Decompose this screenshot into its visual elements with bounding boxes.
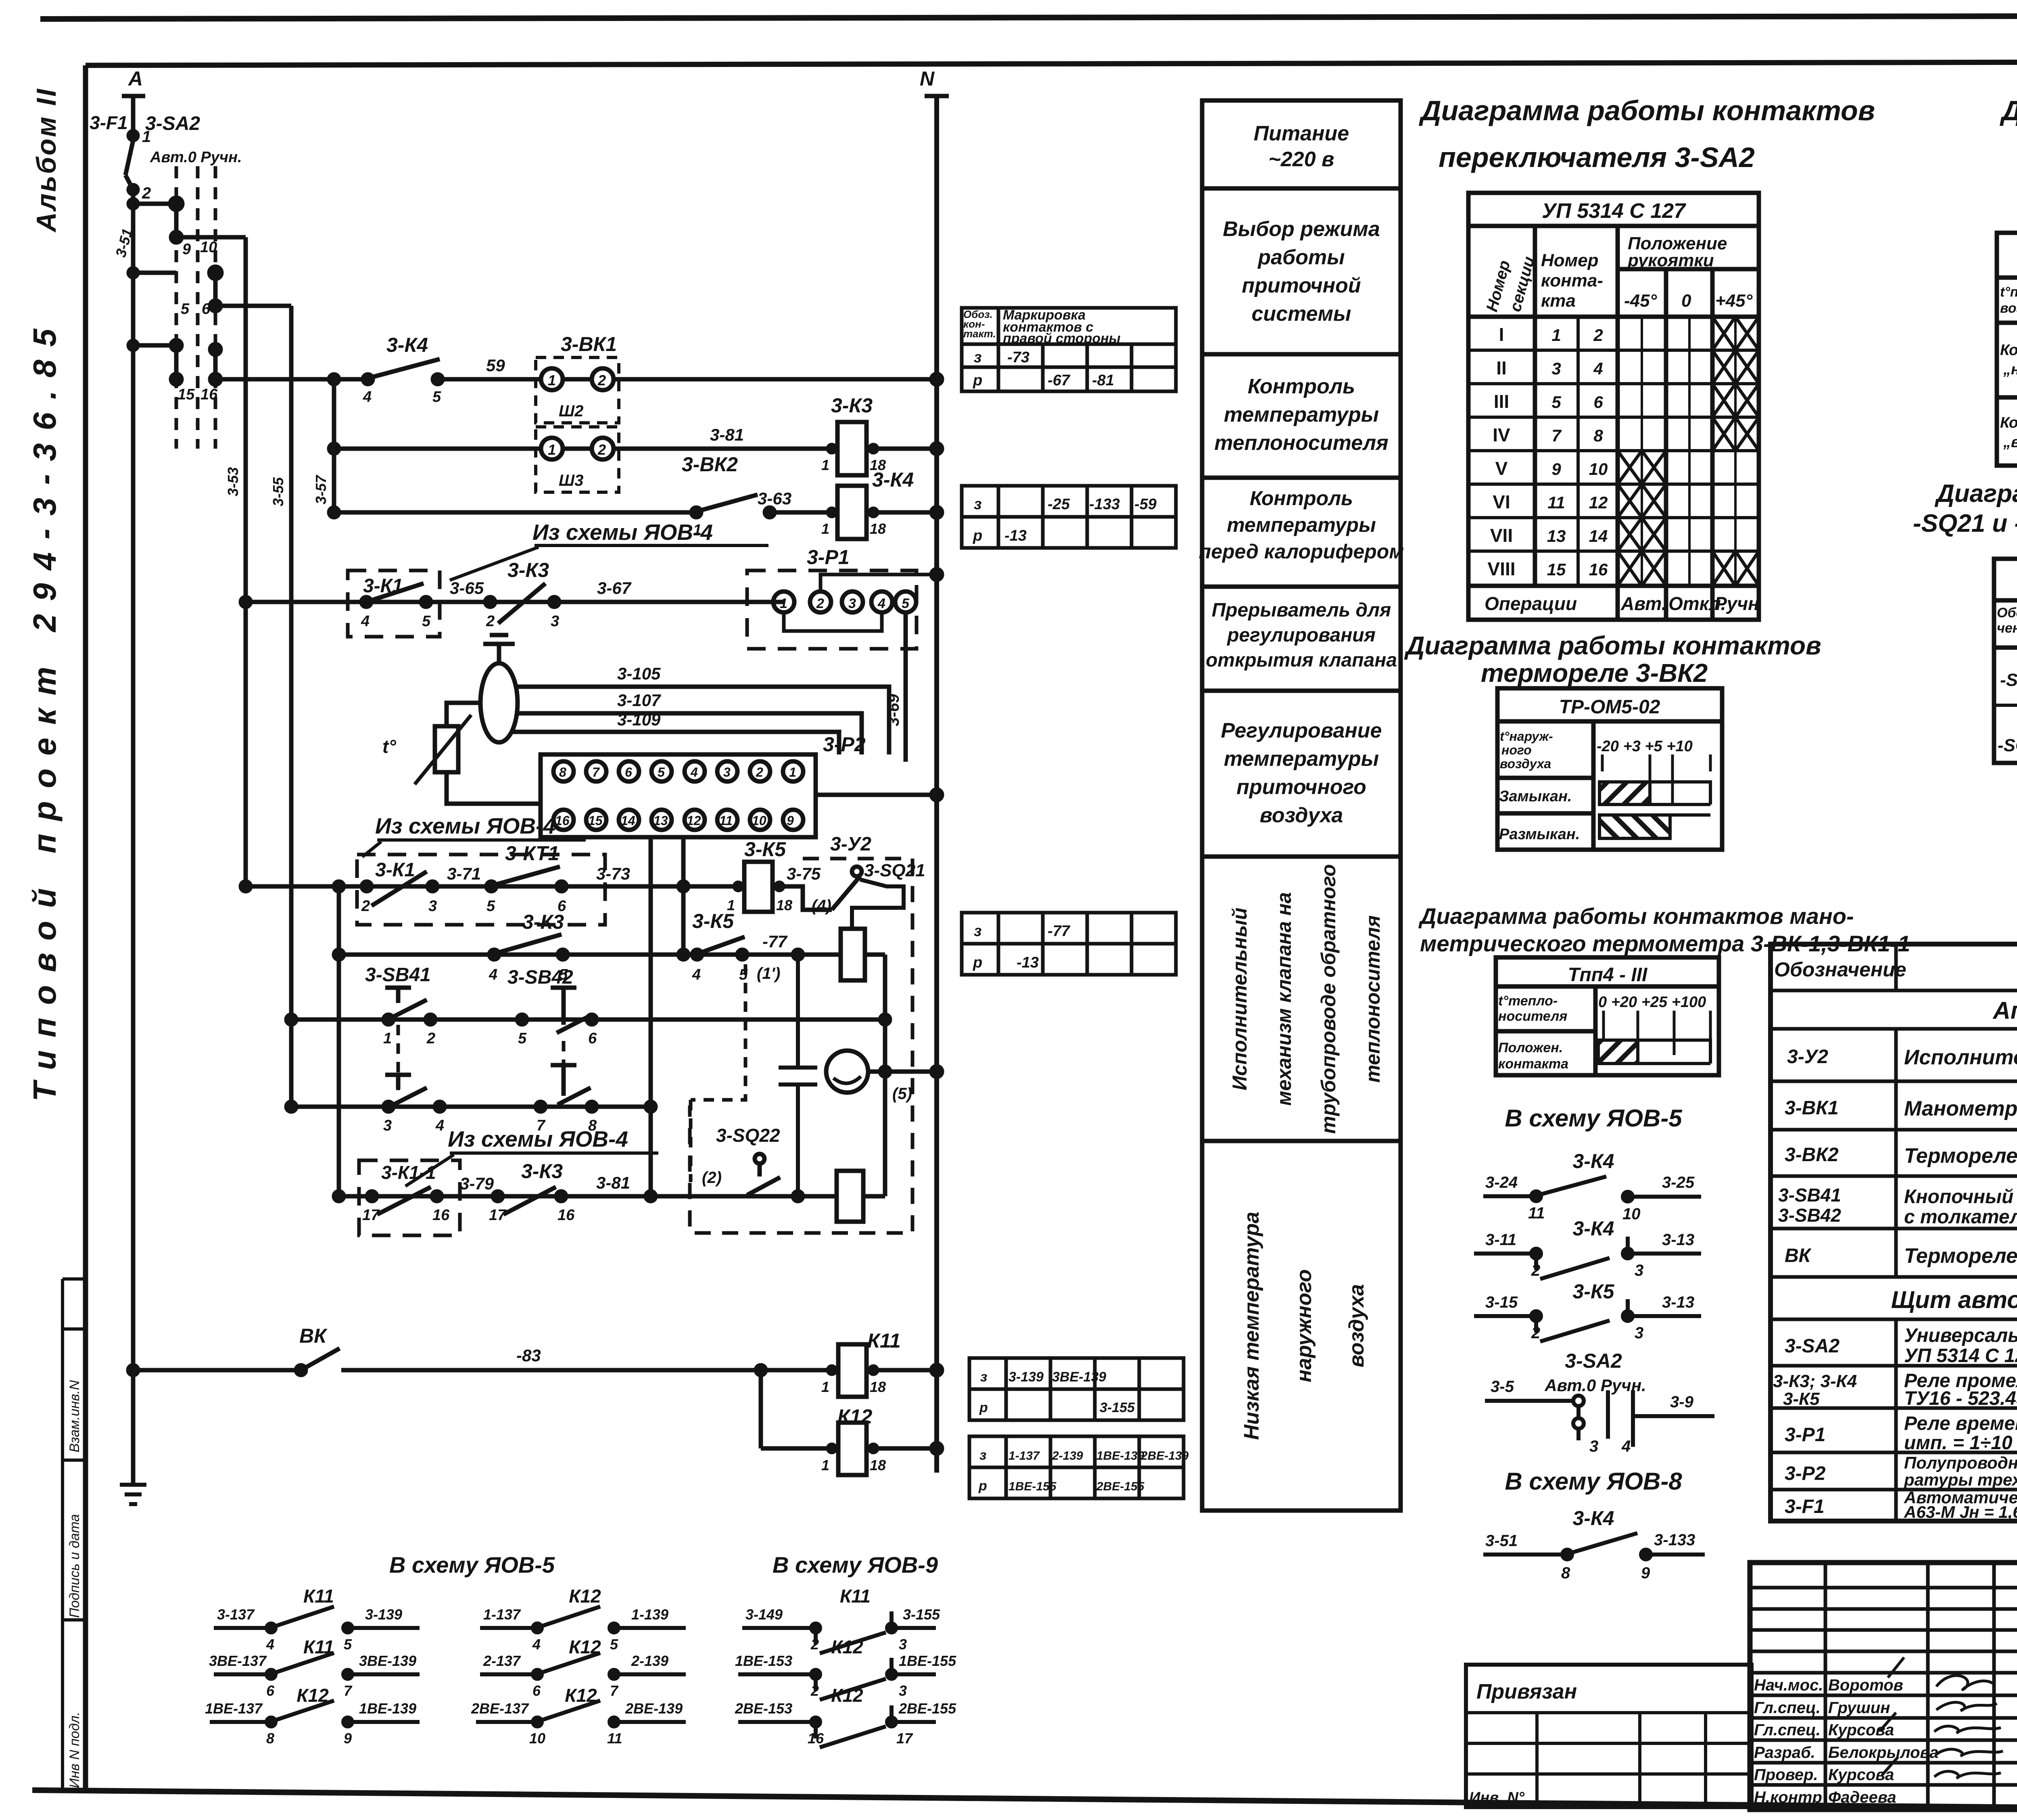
- row 3-U2: [1787, 1035, 2017, 1081]
- contact 3-KT1: [487, 842, 630, 915]
- svg-text:ТР-ОМ5-02: ТР-ОМ5-02: [1559, 696, 1660, 718]
- svg-text:3-139: 3-139: [365, 1606, 402, 1623]
- svg-text:Контакт: Контакт: [2000, 342, 2017, 359]
- 3-P2 terminals top row: [553, 761, 803, 781]
- mech links dashed: [398, 1025, 564, 1090]
- svg-text:ТУ16 - 523.457- 74: ТУ16 - 523.457- 74: [1904, 1388, 2017, 1409]
- svg-text:14: 14: [1589, 527, 1608, 545]
- svg-text:V: V: [1495, 458, 1508, 479]
- svg-text:-77: -77: [762, 932, 787, 951]
- svg-text:(5): (5): [892, 1085, 912, 1103]
- svg-text:Манометрический термометр Тп: Манометрический термометр Тпп4-III: [1904, 1097, 2017, 1120]
- svg-text:3-SВ41: 3-SВ41: [365, 964, 431, 986]
- contact K11 a: [214, 1586, 420, 1653]
- svg-text:5: 5: [344, 1636, 352, 1653]
- rung5 wire: [241, 882, 745, 891]
- svg-text:3-13: 3-13: [1662, 1231, 1694, 1249]
- svg-text:А63-М Jн = 1,6 А ; Jотс: А63-М Jн = 1,6 А ; Jотс = 1,3 Jн: [1904, 1502, 2017, 1521]
- svg-text:Аппаратура по месту: Аппаратура по месту: [1992, 997, 2017, 1024]
- svg-text:3-К3: 3-К3: [521, 1160, 563, 1183]
- svg-text:ВК: ВК: [1785, 1245, 1812, 1266]
- rung9 wire: [334, 1191, 837, 1201]
- svg-text:В схему ЯОВ-5: В схему ЯОВ-5: [389, 1552, 555, 1578]
- svg-text:чение: чение: [1997, 621, 2017, 636]
- svg-text:3-ВК2: 3-ВК2: [682, 453, 738, 476]
- svg-text:Термореле ТР-ОМ5-02: Термореле ТР-ОМ5-02: [1904, 1144, 2017, 1168]
- svg-text:1: 1: [821, 1457, 829, 1473]
- svg-text:2: 2: [1593, 326, 1603, 345]
- svg-text:2: 2: [361, 898, 370, 915]
- thermometer 3-BK1 contacts Ш2: [536, 333, 619, 423]
- svg-text:2ВЕ-155: 2ВЕ-155: [1096, 1480, 1145, 1493]
- svg-text:3-SВ42: 3-SВ42: [1778, 1205, 1841, 1226]
- relay box 3-K1 dashed: [348, 570, 440, 637]
- Tpp4 texts: [1498, 964, 1706, 1072]
- svg-text:переключателя 3-SА2: переключателя 3-SА2: [1439, 142, 1755, 173]
- table Tpp4 frame: [1496, 957, 1719, 1075]
- svg-text:10: 10: [529, 1730, 545, 1747]
- svg-text:3: 3: [723, 765, 731, 779]
- svg-text:регулирования: регулирования: [1226, 625, 1376, 646]
- svg-text:VIII: VIII: [1487, 558, 1515, 579]
- svg-text:Обозна-: Обозна-: [1997, 605, 2017, 621]
- svg-text:3-9: 3-9: [1670, 1393, 1694, 1411]
- relay box 3-K1 second dashed: [357, 855, 605, 925]
- svg-text:Ш2: Ш2: [559, 402, 583, 420]
- svg-text:3: 3: [899, 1682, 907, 1699]
- svg-text:2ВЕ-155: 2ВЕ-155: [898, 1700, 956, 1717]
- svg-text:3-Р2: 3-Р2: [823, 733, 866, 756]
- svg-text:7: 7: [1551, 426, 1562, 445]
- svg-text:4: 4: [363, 389, 372, 405]
- function cell: прерыватель: [1206, 600, 1397, 671]
- function cell: питание: [1254, 122, 1349, 171]
- heading v shemu JOB-9 (bottom): [773, 1552, 938, 1578]
- svg-text:УП 5314 С 127: УП 5314 С 127: [1904, 1345, 2017, 1367]
- bus A vertical: [129, 185, 138, 1485]
- svg-text:3-SА2: 3-SА2: [145, 113, 200, 134]
- svg-text:3-5: 3-5: [1491, 1378, 1514, 1396]
- contact K12 f: [471, 1685, 686, 1747]
- svg-text:1ВЕ-139: 1ВЕ-139: [359, 1700, 416, 1717]
- svg-text:Инв. N°: Инв. N°: [1469, 1789, 1525, 1806]
- svg-text:1: 1: [789, 765, 796, 779]
- TR-OM5 texts: [1499, 696, 1693, 843]
- svg-text:N: N: [920, 67, 935, 90]
- svg-text:3-133: 3-133: [1654, 1531, 1695, 1549]
- time relay 3-P1 dashed box: [747, 570, 917, 649]
- svg-text:2: 2: [1531, 1324, 1540, 1342]
- svg-text:17: 17: [489, 1207, 507, 1224]
- svg-text:16: 16: [555, 813, 570, 828]
- contact 3-K4 to JOB-5 line b: [1474, 1217, 1701, 1279]
- svg-text:3: 3: [1589, 1438, 1598, 1455]
- svg-text:3-К3: 3-К3: [522, 911, 564, 933]
- svg-text:3-Р2: 3-Р2: [1785, 1463, 1826, 1484]
- svg-text:Положен.: Положен.: [1498, 1040, 1563, 1055]
- regulator 3-P2 box: [541, 733, 866, 837]
- actuator winding bottom: [837, 1171, 885, 1222]
- svg-text:з: з: [974, 496, 981, 513]
- svg-text:р: р: [973, 527, 982, 544]
- svg-text:3-F1: 3-F1: [1785, 1496, 1825, 1517]
- contact 3-K5 rung6: [692, 910, 787, 983]
- svg-text:носителя: носителя: [1498, 1009, 1567, 1024]
- svg-text:3-ВК2: 3-ВК2: [1785, 1144, 1839, 1166]
- svg-text:4: 4: [692, 966, 701, 983]
- svg-text:16: 16: [808, 1730, 824, 1747]
- svg-text:3-КТ1: 3-КТ1: [505, 842, 559, 865]
- title diagram SA2: [1419, 95, 1875, 173]
- svg-text:приточного: приточного: [1236, 775, 1366, 799]
- svg-text:температуры: температуры: [1224, 403, 1379, 426]
- svg-text:16: 16: [557, 1207, 575, 1224]
- svg-text:Замыкан.: Замыкан.: [1499, 788, 1572, 805]
- relay coil K11: [821, 1329, 942, 1397]
- svg-text:К11: К11: [840, 1586, 871, 1607]
- riser K12 branch: [756, 1365, 766, 1448]
- svg-text:Исполнительный: Исполнительный: [1228, 907, 1251, 1090]
- svg-text:9: 9: [182, 241, 191, 258]
- svg-text:3ВЕ-137: 3ВЕ-137: [209, 1653, 267, 1669]
- svg-text:Из схемы ЯОВ-4: Из схемы ЯОВ-4: [375, 813, 555, 838]
- svg-text:12: 12: [687, 813, 701, 828]
- svg-text:1: 1: [780, 596, 787, 611]
- pushbutton rung8 first: [383, 1075, 445, 1134]
- svg-text:VI: VI: [1493, 491, 1510, 512]
- svg-text:4: 4: [532, 1636, 541, 1653]
- relay coil 3-K5: [727, 838, 831, 915]
- contact 3-K1-1: [362, 1162, 494, 1224]
- svg-text:59: 59: [486, 356, 505, 375]
- capacitor: [779, 950, 817, 1201]
- svg-text:3-К3: 3-К3: [507, 559, 549, 581]
- wire 5-6 exit: [215, 304, 291, 308]
- svg-text:t°приточ.: t°приточ.: [2000, 284, 2017, 300]
- contact 3-K3 rung4: [450, 559, 632, 630]
- riser left rung9: [337, 886, 341, 1196]
- svg-text:Курсова: Курсова: [1828, 1766, 1894, 1784]
- svg-text:с толкателями красного и ч: с толкателями красного и черного цв.: [1904, 1206, 2017, 1228]
- svg-text:3-К5: 3-К5: [1572, 1280, 1614, 1303]
- svg-text:2ВЕ-139: 2ВЕ-139: [625, 1700, 683, 1717]
- svg-text:Регулирование: Регулирование: [1221, 719, 1382, 742]
- svg-text:2: 2: [756, 765, 763, 779]
- svg-text:3-63: 3-63: [758, 489, 791, 508]
- function cell: низкая температура (vertical): [1240, 1212, 1368, 1440]
- svg-text:10: 10: [752, 813, 766, 828]
- svg-text:1ВЕ-139: 1ВЕ-139: [1096, 1449, 1144, 1463]
- svg-text:4: 4: [690, 765, 698, 779]
- svg-text:р: р: [973, 372, 982, 389]
- SA2 X marks +45 col rows I-IV,VIII: [1712, 317, 1759, 586]
- svg-text:К11: К11: [303, 1586, 334, 1607]
- svg-text:Авт.0 Ручн.: Авт.0 Ручн.: [150, 149, 242, 166]
- component table frame: [1771, 944, 2017, 1521]
- svg-text:4: 4: [489, 966, 497, 983]
- svg-text:9: 9: [787, 813, 794, 828]
- svg-text:Из схемы ЯОВ-4: Из схемы ЯОВ-4: [532, 520, 713, 545]
- svg-text:1: 1: [548, 441, 556, 458]
- svg-text:1: 1: [821, 520, 829, 537]
- privjazan box: [1466, 1665, 1752, 1807]
- svg-text:3: 3: [899, 1636, 907, 1653]
- wire 3-81 rung2: [614, 425, 839, 449]
- svg-text:1-137: 1-137: [1008, 1449, 1040, 1463]
- contact 3-K4 to JOB-5 line a: [1483, 1150, 1701, 1223]
- svg-text:Ручн: Ручн: [1714, 593, 1759, 614]
- svg-text:воздуха: воздуха: [1260, 804, 1343, 827]
- svg-text:1: 1: [821, 1379, 829, 1395]
- svg-text:15: 15: [588, 813, 603, 828]
- function cell: контроль перед калорифером: [1199, 487, 1404, 563]
- svg-text:2ВЕ-137: 2ВЕ-137: [471, 1700, 529, 1717]
- svg-text:3-К3; 3-К4: 3-К3; 3-К4: [1773, 1371, 1857, 1391]
- svg-text:1: 1: [1551, 326, 1561, 345]
- svg-text:К12: К12: [837, 1405, 873, 1428]
- pushbutton rung7 wire: [286, 1015, 890, 1024]
- svg-text:18: 18: [870, 1379, 886, 1395]
- wire 3-105: [518, 664, 889, 754]
- svg-text:Н.контр: Н.контр: [1754, 1789, 1822, 1806]
- wire riser 3-53: [225, 237, 246, 886]
- marking table 2: [962, 486, 1176, 548]
- contact 3-K1 rung5: [361, 859, 481, 915]
- svg-text:Привязан: Привязан: [1476, 1680, 1577, 1703]
- wire 3-69 drop: [885, 612, 906, 762]
- svg-text:11: 11: [719, 813, 733, 828]
- frame bottom edge: [32, 1790, 2017, 1812]
- svg-text:3ВЕ-139: 3ВЕ-139: [1052, 1369, 1106, 1385]
- TR-OM5 bar2: [1599, 815, 1710, 838]
- svg-text:теплоносителя: теплоносителя: [1361, 915, 1384, 1083]
- svg-text:2: 2: [1531, 1262, 1540, 1279]
- svg-text:3-57: 3-57: [313, 474, 329, 504]
- marking table 1: [962, 307, 1176, 391]
- svg-text:16: 16: [1589, 560, 1608, 579]
- svg-text:7: 7: [592, 765, 600, 779]
- table MEO frame: [1994, 559, 2017, 763]
- svg-text:конта-: конта-: [1541, 271, 1603, 290]
- svg-text:3-107: 3-107: [617, 691, 661, 710]
- border: page top line: [40, 15, 2017, 19]
- svg-text:1ВЕ-153: 1ВЕ-153: [735, 1653, 792, 1669]
- svg-text:IV: IV: [1493, 424, 1510, 445]
- contact K12 h NC: [735, 1636, 956, 1700]
- svg-text:-25: -25: [1048, 496, 1070, 513]
- svg-text:3-К5: 3-К5: [744, 838, 786, 861]
- svg-text:3-К3: 3-К3: [831, 394, 873, 417]
- svg-text:4: 4: [435, 1117, 444, 1134]
- svg-text:3ВЕ-139: 3ВЕ-139: [359, 1653, 416, 1669]
- svg-text:К12: К12: [569, 1586, 601, 1607]
- svg-text:-45°: -45°: [1624, 291, 1657, 311]
- wire rung1 left: [215, 374, 368, 384]
- svg-text:3-SВ42: 3-SВ42: [507, 967, 573, 988]
- function column box: [1202, 100, 1401, 1511]
- function cell: исполнительный механизм (vertical): [1228, 864, 1384, 1134]
- svg-text:3-К1: 3-К1: [375, 859, 415, 881]
- marking table 4: [969, 1358, 1184, 1420]
- svg-text:1: 1: [383, 1030, 392, 1047]
- switch 3-SA2 labels: [145, 113, 242, 166]
- title diagram end switches: [1913, 480, 2017, 537]
- title block left grid: [1750, 1563, 2017, 1810]
- svg-text:4: 4: [877, 596, 885, 611]
- svg-text:Воротов: Воротов: [1828, 1676, 1903, 1694]
- svg-text:8: 8: [1593, 426, 1603, 445]
- svg-text:Диаграмма работы контактов: Диаграмма работы контактов: [1404, 631, 1821, 660]
- svg-text:3-149: 3-149: [745, 1606, 783, 1623]
- svg-text:3-11: 3-11: [1485, 1231, 1516, 1249]
- relay coil 3-K3: [821, 394, 942, 475]
- svg-text:3-К4: 3-К4: [1572, 1507, 1614, 1530]
- svg-text:3-К5: 3-К5: [1783, 1389, 1820, 1409]
- svg-text:3-К1-1: 3-К1-1: [381, 1162, 436, 1183]
- rung4 wire: [241, 597, 784, 607]
- svg-text:3-75: 3-75: [787, 864, 821, 883]
- svg-text:17: 17: [896, 1730, 913, 1747]
- frame left edge: [83, 65, 88, 1791]
- row 3-BK1: [1785, 1097, 2017, 1120]
- svg-text:6: 6: [202, 301, 211, 318]
- heading v shemu JOB-8: [1505, 1468, 1682, 1495]
- svg-text:3-79: 3-79: [460, 1174, 494, 1193]
- svg-text:р: р: [978, 1478, 987, 1494]
- svg-text:Прерыватель для: Прерыватель для: [1212, 600, 1391, 621]
- svg-text:2ВЕ-153: 2ВЕ-153: [735, 1700, 792, 1717]
- svg-text:1-137: 1-137: [483, 1606, 521, 1623]
- svg-text:3-81: 3-81: [710, 425, 744, 444]
- svg-text:Термореле ТР-ОМ5-00: Термореле ТР-ОМ5-00: [1904, 1244, 2017, 1268]
- svg-text:4: 4: [361, 613, 370, 630]
- svg-text:Фадеева: Фадеева: [1828, 1789, 1896, 1806]
- note iz shemy JOB-4 (3): [405, 1126, 658, 1186]
- riser P2 bottom: [649, 837, 653, 1193]
- rung8 wire: [286, 1102, 656, 1112]
- svg-text:9: 9: [344, 1730, 352, 1747]
- svg-text:Контроль: Контроль: [1250, 487, 1353, 510]
- title diagram 3-P2: [2000, 95, 2017, 173]
- svg-text:ратуры трехпозиционный ПТР-3: ратуры трехпозиционный ПТР-3-04: [1904, 1470, 2017, 1489]
- svg-text:3-К4: 3-К4: [872, 468, 914, 491]
- svg-text:Диаграмма работы контактов: Диаграмма работы контактов мано-: [1418, 903, 1854, 929]
- svg-text:3-К4: 3-К4: [1572, 1217, 1614, 1240]
- svg-text:3-15: 3-15: [1485, 1293, 1518, 1311]
- svg-text:t°: t°: [382, 736, 396, 757]
- title block outer: [1750, 1563, 2017, 1810]
- svg-text:Из схемы ЯОВ-4: Из схемы ЯОВ-4: [448, 1126, 628, 1151]
- relay coil K12: [761, 1405, 942, 1475]
- note iz shemy JOB-4 (1): [450, 520, 768, 580]
- contact 3-K3 rung6: [489, 911, 568, 983]
- svg-text:Контроль: Контроль: [1248, 375, 1355, 398]
- svg-text:2: 2: [142, 184, 151, 202]
- svg-text:Авт.0 Ручн.: Авт.0 Ручн.: [1544, 1376, 1646, 1395]
- 3-P2 terminals bottom row: [553, 810, 803, 830]
- pushbutton 3-SB41: [365, 964, 435, 1047]
- relay coil 3-K4: [821, 468, 942, 539]
- breaker 3-F1: [90, 112, 151, 202]
- svg-text:3-SQ21: 3-SQ21: [864, 861, 925, 880]
- svg-text:-83: -83: [516, 1346, 541, 1365]
- svg-text:2: 2: [810, 1636, 819, 1653]
- svg-text:-SQ21 и -SQ22 исполнительного: -SQ21 и -SQ22 исполнительного механизма …: [1913, 510, 2017, 537]
- table TR-OM5 frame: [1497, 688, 1722, 850]
- rung6 wire: [334, 950, 841, 959]
- svg-text:6: 6: [1593, 393, 1603, 412]
- svg-text:Выбор режима: Выбор режима: [1223, 217, 1380, 241]
- contact K12 d: [480, 1586, 686, 1653]
- svg-text:температуры: температуры: [1227, 514, 1376, 536]
- svg-text:3-К1: 3-К1: [363, 575, 403, 597]
- svg-text:Взам.инв.N: Взам.инв.N: [67, 1380, 82, 1452]
- svg-text:Грушин: Грушин: [1828, 1699, 1890, 1717]
- svg-text:3-У2: 3-У2: [830, 834, 871, 855]
- temperature sensor: [382, 715, 471, 784]
- title diagram BK2: [1404, 631, 1821, 687]
- Tpp4 bar: [1598, 1040, 1710, 1064]
- contact 3-K4 to JOB-8: [1483, 1507, 1705, 1582]
- svg-text:5: 5: [902, 596, 910, 611]
- pushbutton rung8 second: [536, 1065, 597, 1134]
- svg-text:контакта: контакта: [1498, 1056, 1568, 1072]
- svg-text:з: з: [974, 349, 981, 366]
- svg-text:1: 1: [821, 457, 829, 473]
- svg-text:Операции: Операции: [1485, 593, 1577, 614]
- svg-text:3-137: 3-137: [217, 1606, 255, 1623]
- svg-text:6: 6: [266, 1682, 275, 1699]
- svg-text:2-139: 2-139: [1052, 1449, 1083, 1463]
- svg-text:6: 6: [625, 765, 632, 779]
- svg-text:р: р: [973, 954, 982, 971]
- ground symbol: [120, 1485, 146, 1504]
- wire 3-63: [758, 489, 839, 512]
- title block names: [1754, 1676, 1938, 1806]
- wire 3-107: [518, 691, 862, 754]
- svg-text:5: 5: [487, 898, 495, 915]
- svg-text:3-SА2: 3-SА2: [1565, 1350, 1622, 1372]
- svg-text:3-81: 3-81: [596, 1173, 630, 1192]
- contact 3-K3 rung9: [489, 1160, 630, 1224]
- svg-text:открытия клапана: открытия клапана: [1206, 650, 1397, 671]
- svg-text:3-SВ41: 3-SВ41: [1778, 1185, 1841, 1206]
- svg-text:-13: -13: [1004, 527, 1027, 544]
- svg-text:I: I: [1499, 324, 1504, 345]
- svg-text:системы: системы: [1252, 302, 1351, 326]
- table PTR frame: [1997, 233, 2017, 466]
- svg-text:Диаграмма работы конечных в: Диаграмма работы конечных выключателей: [1934, 480, 2017, 508]
- svg-text:III: III: [1494, 391, 1509, 412]
- svg-text:1ВЕ-137: 1ВЕ-137: [205, 1700, 263, 1717]
- svg-text:Альбом II: Альбом II: [31, 88, 62, 233]
- 3-P1 terminals: [773, 546, 942, 631]
- svg-text:8: 8: [559, 765, 566, 779]
- svg-text:з: з: [974, 923, 981, 940]
- contact 3-K1 rung4: [361, 575, 431, 630]
- svg-text:2: 2: [486, 613, 495, 630]
- svg-text:-SQ21: -SQ21: [2000, 670, 2017, 690]
- row 3-P1: [1785, 1413, 2017, 1454]
- svg-text:3-53: 3-53: [225, 467, 241, 496]
- svg-text:механизм клапана на: механизм клапана на: [1273, 892, 1295, 1105]
- TR-OM5 bar1: [1599, 782, 1710, 804]
- svg-text:10: 10: [1589, 460, 1608, 479]
- svg-text:8: 8: [1561, 1564, 1570, 1582]
- svg-text:кта: кта: [1541, 291, 1576, 311]
- svg-text:-13: -13: [1017, 954, 1039, 971]
- switch 3-SA2 dashed section lines: [176, 166, 215, 449]
